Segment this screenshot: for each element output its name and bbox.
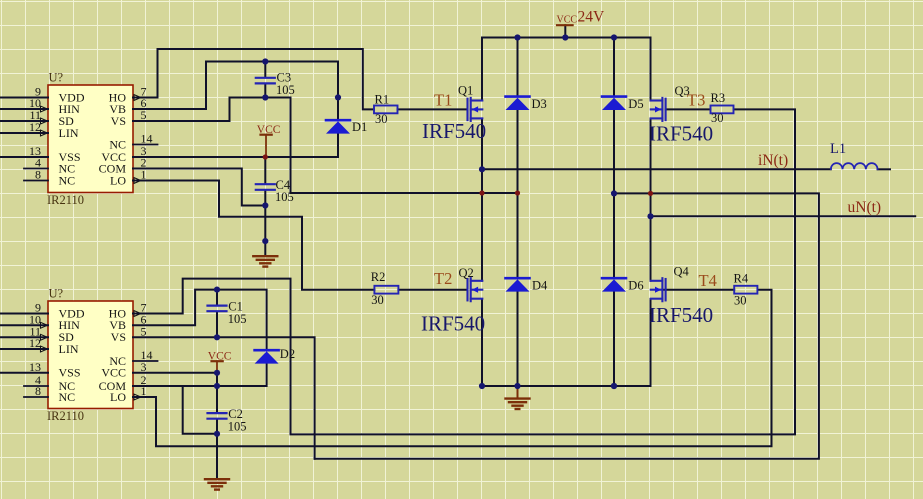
wire HO1: U?A pin7 up and over to R1 — [133, 49, 374, 109]
wire Q1 source to Q2 drain (phase node A) — [481, 119, 483, 281]
svg-text:D3: D3 — [532, 97, 547, 111]
svg-text:NC: NC — [59, 390, 76, 404]
svg-text:VS: VS — [111, 330, 126, 344]
wire LO1: U?A pin1 down and over to R2 — [133, 181, 374, 290]
wire D5 anode down to phase node B — [613, 110, 615, 193]
wire C1 lower stem — [216, 312, 218, 338]
U?A input arrow at pin SD — [41, 118, 48, 124]
junction node COM2 / C2 stem — [214, 383, 220, 389]
wire input to U?A pin row 5 — [0, 156, 48, 158]
svg-text:D4: D4 — [532, 279, 548, 293]
U?A NC pin stub (pin 8) — [24, 180, 48, 182]
resistor R1 — [374, 106, 398, 114]
wire ground stem below node A — [264, 241, 266, 256]
resistor R4 — [734, 286, 757, 294]
svg-text:IRF540: IRF540 — [421, 312, 485, 336]
diode D1 — [326, 120, 350, 133]
wire Q3 source to Q4 drain (phase node B) — [650, 119, 652, 281]
U?A input arrow at pin HIN — [41, 106, 48, 112]
svg-text:D5: D5 — [628, 97, 643, 111]
svg-text:VS: VS — [111, 114, 126, 128]
svg-text:5: 5 — [141, 324, 147, 338]
capacitor C3 — [256, 78, 275, 84]
U?A output arrow at pin HO — [134, 95, 141, 101]
U?B input arrow at pin SD — [41, 334, 48, 340]
junction node bottom rail / ground — [514, 383, 520, 389]
wire HO2: U?B pin7 up over and down to R3 — [133, 109, 795, 434]
op-amp/driver IC U? (U?A) IR2110 body — [48, 85, 133, 193]
wire R1 output to Q1 gate — [398, 108, 468, 110]
junction node C1 top / VB2 — [214, 287, 220, 293]
wire VCC 24V symbol stem — [564, 25, 566, 37]
power symbol VCC 24V bar — [557, 24, 573, 26]
svg-text:U?: U? — [49, 71, 64, 85]
U?B output arrow at pin LO — [134, 394, 141, 400]
junction node top rail / VCC stem — [562, 34, 568, 40]
junction node bottom rail / D6 anode — [611, 383, 617, 389]
svg-text:L1: L1 — [830, 141, 846, 157]
U?A input arrow at pin LIN — [41, 130, 48, 136]
junction node top rail / D3 — [514, 34, 520, 40]
wire input to U?A pin row 3 — [0, 120, 48, 122]
U?A output arrow at pin LO — [134, 178, 141, 184]
wire input to U?B pin row 3 — [0, 336, 48, 338]
U?A NC pin stub (pin 4) — [24, 168, 48, 170]
svg-text:Q1: Q1 — [458, 83, 473, 97]
junction node phase A / D3-D4 (red) — [515, 190, 520, 195]
capacitor C2 — [208, 413, 227, 419]
svg-text:T2: T2 — [434, 269, 452, 288]
svg-text:VCC: VCC — [257, 124, 281, 136]
wire COM2: U?B pin2 to D2 anode — [133, 363, 267, 386]
svg-text:VCC: VCC — [208, 351, 232, 363]
wire bridge bottom rail Q2/Q4 sources — [482, 299, 651, 386]
svg-text:24V: 24V — [578, 8, 606, 25]
svg-text:R3: R3 — [711, 91, 726, 105]
ground symbol near C4 (driver A) — [253, 256, 277, 266]
wire VCC2: U?B pin3 to VCC node — [133, 372, 217, 374]
wire R3 input from Q3 gate — [666, 108, 711, 110]
wire L1 right lead — [878, 168, 890, 170]
svg-text:VSS: VSS — [59, 366, 81, 380]
junction node bottom rail / Q2 source — [479, 383, 485, 389]
svg-text:IR2110: IR2110 — [47, 409, 84, 423]
junction node iN tap at phase A — [479, 166, 485, 172]
wire D3 anode down to phase node A — [517, 110, 519, 193]
svg-text:U?: U? — [49, 287, 64, 301]
wire VB1: U?A pin6 up to C3 top and over to D1 cathode — [133, 62, 338, 121]
wire VS1: U?A pin5 via C3 bottom down to phase node A — [133, 98, 518, 194]
junction node D1 cathode riser — [335, 94, 341, 100]
wire R2 output to Q2 gate — [398, 289, 467, 291]
wire D6 cathode up to phase node B — [613, 193, 615, 278]
U?B NC pin stub (pin 4) — [24, 385, 48, 387]
wire D4 anode down to bottom rail — [517, 292, 519, 386]
wire input to U?A pin row 4 — [0, 132, 48, 134]
wire input to U?B pin row 2 — [0, 324, 48, 326]
wire VCC2 symbol stem — [216, 361, 218, 373]
svg-text:IRF540: IRF540 — [649, 303, 713, 327]
wire C1 upper stem — [216, 290, 218, 305]
wire C3 lower stem — [264, 84, 266, 98]
transistor Q3 (MOSFET) — [651, 98, 666, 121]
U?B input arrow at pin LIN — [41, 346, 48, 352]
junction node C1 bottom / VS2 — [214, 334, 220, 340]
junction node D6 drop to rail — [611, 383, 617, 389]
wire VS2: U?B pin5 via C1 bottom down to return row — [133, 337, 315, 458]
svg-text:LIN: LIN — [59, 126, 79, 140]
U?B NC pin stub (pin 14) — [133, 360, 158, 362]
junction node C3 top — [262, 58, 268, 64]
junction node uN tap at phase B — [647, 213, 653, 219]
svg-text:30: 30 — [734, 294, 747, 308]
svg-text:IR2110: IR2110 — [47, 193, 84, 207]
diode D2 — [255, 350, 279, 363]
power symbol VCC (driver B) bar — [212, 360, 223, 362]
svg-text:VCC: VCC — [101, 366, 126, 380]
svg-text:NC: NC — [59, 173, 76, 187]
wire bridge ground stem — [517, 386, 519, 398]
diode D3 — [506, 97, 530, 110]
svg-text:R4: R4 — [734, 271, 749, 285]
junction node C2 bottom — [214, 431, 220, 437]
wire C3 upper stem — [264, 62, 266, 78]
wire C2 upper stem from VCC node through COM — [216, 373, 218, 413]
op-amp/driver IC U? (U?B) IR2110 body — [48, 301, 133, 409]
U?B output arrow at pin HO — [134, 311, 141, 317]
wire C2 lower stem — [216, 419, 218, 433]
wire C4 lower stem — [264, 190, 266, 205]
diode D6 — [602, 278, 626, 291]
wire VCC 24V rail across bridge top — [482, 38, 651, 101]
svg-text:30: 30 — [371, 293, 384, 307]
junction node C4 bottom / COM1 — [262, 202, 268, 208]
svg-text:iN(t): iN(t) — [758, 152, 788, 169]
svg-text:D6: D6 — [628, 279, 643, 293]
capacitor C4 — [256, 184, 275, 190]
power symbol VCC (driver A) bar — [261, 134, 272, 136]
svg-text:13: 13 — [29, 360, 41, 374]
diode D5 — [602, 97, 626, 110]
wire D5 cathode to top rail — [613, 38, 615, 97]
wire D6 anode down to bottom rail — [613, 292, 615, 386]
svg-text:uN(t): uN(t) — [848, 199, 882, 216]
junction node phase B / Q3-Q4 (red) — [648, 191, 653, 196]
wire C4 upper stem — [264, 157, 266, 183]
inductor L1 — [831, 163, 878, 169]
svg-text:5: 5 — [141, 108, 147, 122]
svg-text:D1: D1 — [352, 120, 367, 134]
U?B NC pin stub (pin 8) — [24, 396, 48, 398]
svg-text:Q2: Q2 — [459, 266, 474, 280]
svg-text:LIN: LIN — [59, 342, 79, 356]
transistor Q4 (MOSFET) — [651, 278, 666, 301]
svg-text:R2: R2 — [371, 270, 386, 284]
wire VCC1: U?A pin3 to D1 anode — [133, 134, 338, 157]
resistor R3 — [711, 106, 734, 114]
wire phase node B row to far right drop — [315, 193, 819, 458]
wire C4 bottom to ground node — [264, 206, 266, 242]
svg-text:105: 105 — [275, 190, 294, 204]
transistor Q1 (MOSFET) — [468, 98, 483, 121]
ground symbol near C2 (driver B) — [205, 479, 229, 489]
svg-text:T3: T3 — [687, 90, 705, 109]
junction node VCC1 / pin3 (red) — [263, 154, 268, 159]
wire input to U?B pin row 1 — [0, 313, 48, 315]
svg-text:T4: T4 — [699, 271, 717, 290]
wire R4 input from Q4 gate — [665, 289, 735, 291]
junction node VCC2 / C2 stem — [214, 370, 220, 376]
diode D4 — [506, 278, 530, 291]
wire C2 bottom link to COM2 — [183, 386, 217, 434]
wire D4 cathode up to phase node A — [517, 193, 519, 278]
wire ground stem below C2 — [216, 434, 218, 479]
wire input to U?A pin row 2 — [0, 108, 48, 110]
wire LO2: U?B pin1 down and over to R4 — [133, 290, 772, 447]
svg-text:8: 8 — [35, 168, 41, 182]
capacitor C1 — [208, 306, 227, 312]
wire input to U?B pin row 4 — [0, 348, 48, 350]
svg-text:LO: LO — [110, 173, 126, 187]
ground symbol bridge centre — [506, 399, 530, 409]
wire uN(t) output — [651, 215, 916, 217]
svg-text:IRF540: IRF540 — [649, 122, 713, 146]
U?A NC pin stub (pin 14) — [133, 144, 158, 146]
wire iN(t) output to inductor L1 — [482, 168, 831, 170]
svg-text:105: 105 — [228, 312, 247, 326]
junction node phase A / Q1-Q2 (red) — [479, 190, 484, 195]
svg-text:30: 30 — [375, 112, 388, 126]
wire input to U?B pin row 5 — [0, 372, 48, 374]
svg-text:IRF540: IRF540 — [422, 119, 486, 143]
wire VCC1 symbol stem — [265, 135, 267, 157]
svg-text:LO: LO — [110, 390, 126, 404]
svg-text:Q4: Q4 — [674, 265, 690, 279]
transistor Q2 (MOSFET) — [468, 278, 483, 301]
wire input to U?A pin row 1 — [0, 97, 48, 99]
svg-text:R1: R1 — [375, 93, 390, 107]
svg-text:105: 105 — [276, 83, 295, 97]
wire D3 cathode to top rail — [517, 38, 519, 97]
svg-text:T1: T1 — [434, 91, 452, 110]
wire VB2: U?B pin6 up to C1 top and over to D2 cathode — [133, 290, 267, 350]
svg-text:VCC: VCC — [557, 15, 578, 26]
U?B input arrow at pin HIN — [41, 322, 48, 328]
svg-text:D2: D2 — [280, 347, 295, 361]
junction node phase B / D5 anode — [611, 190, 617, 196]
svg-text:105: 105 — [228, 420, 247, 434]
junction node C3 bottom / VS1 — [262, 94, 268, 100]
wire COM1: U?A pin2 down to C4 bottom — [133, 169, 265, 206]
svg-text:1: 1 — [141, 168, 147, 182]
junction node top rail / D5 — [611, 34, 617, 40]
junction node ground link A — [262, 238, 268, 244]
svg-text:12: 12 — [29, 120, 41, 134]
resistor R2 — [374, 286, 398, 294]
